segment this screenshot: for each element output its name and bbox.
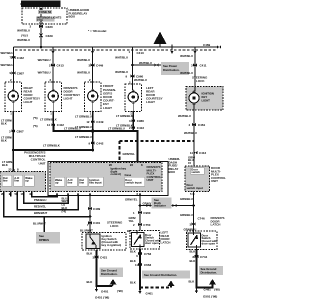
svg-text:GRN/BLU: GRN/BLU: [180, 197, 193, 201]
svg-text:LATCH: LATCH: [161, 240, 171, 244]
svg-text:WHT/BLU: WHT/BLU: [38, 71, 51, 75]
svg-text:(*4): (*4): [62, 210, 67, 214]
svg-text:LT GRN/BLU: LT GRN/BLU: [108, 126, 125, 130]
svg-text:WHT/BLU: WHT/BLU: [115, 56, 128, 60]
svg-text:LIGHT: LIGHT: [202, 99, 211, 103]
svg-text:line: line: [3, 179, 8, 183]
svg-text:switch input: switch input: [187, 186, 203, 190]
svg-text:LT GRN/BLK: LT GRN/BLK: [40, 118, 57, 122]
svg-text:C421: C421: [100, 256, 108, 260]
svg-text:LOCK: LOCK: [196, 79, 205, 83]
svg-text:up: up: [25, 179, 29, 183]
svg-text:BRN/WHT: BRN/WHT: [34, 211, 47, 215]
svg-text:G401: G401: [101, 290, 109, 294]
svg-text:C807: C807: [17, 130, 25, 134]
svg-text:BLK: BLK: [130, 281, 136, 285]
svg-text:GRN/YEL: GRN/YEL: [123, 152, 136, 156]
svg-text:UNIT: UNIT: [39, 161, 46, 165]
svg-text:G501 ('98): G501 ('98): [203, 295, 217, 299]
svg-text:BLK: BLK: [2, 163, 8, 167]
svg-text:switch input: switch input: [125, 181, 141, 185]
svg-text:GRN/YEL: GRN/YEL: [125, 198, 138, 202]
svg-text:LT GRN/BLU: LT GRN/BLU: [64, 126, 81, 130]
svg-text:PNK/BLU: PNK/BLU: [34, 198, 46, 202]
svg-text:BLK: BLK: [190, 259, 196, 263]
svg-text:BLK: BLK: [189, 280, 195, 284]
svg-text:C746: C746: [198, 217, 206, 221]
svg-text:WHT/BLU: WHT/BLU: [38, 58, 51, 62]
svg-text:HOT AT ALL TIMES: HOT AT ALL TIMES: [20, 2, 47, 6]
svg-text:key input: key input: [89, 181, 101, 185]
svg-text:WHT/BLU: WHT/BLU: [139, 61, 152, 65]
svg-text:GRN/BLU: GRN/BLU: [180, 213, 193, 217]
svg-text:BOX: BOX: [69, 15, 76, 19]
svg-text:RED/YEL: RED/YEL: [34, 204, 46, 208]
svg-text:WHT/BLU: WHT/BLU: [1, 63, 14, 67]
svg-text:BLK: BLK: [87, 280, 93, 284]
svg-text:UNIT: UNIT: [211, 179, 218, 183]
svg-text:LOCK: LOCK: [110, 224, 119, 228]
svg-text:WHT/BLU: WHT/BLU: [180, 71, 193, 75]
svg-text:C960: C960: [143, 211, 151, 215]
svg-text:(*6) 5: (*6) 5: [21, 34, 28, 38]
svg-text:C763: C763: [144, 252, 152, 256]
svg-text:DPMES: DPMES: [39, 238, 49, 242]
svg-text:BLK: BLK: [1, 139, 7, 143]
svg-text:Distribution.: Distribution.: [163, 68, 180, 72]
svg-text:(*6): (*6): [33, 116, 38, 120]
svg-text:C750: C750: [143, 223, 151, 227]
svg-text:C449: C449: [96, 120, 104, 124]
svg-text:WHT/BLU: WHT/BLU: [1, 51, 14, 55]
svg-text:UNIT: UNIT: [147, 178, 154, 182]
svg-text:BLK: BLK: [130, 250, 136, 254]
svg-text:C411: C411: [200, 64, 207, 68]
svg-text:LATCH: LATCH: [211, 223, 221, 227]
svg-text:WHT/BLU: WHT/BLU: [17, 29, 30, 33]
svg-text:WHT/BLU: WHT/BLU: [17, 38, 30, 42]
svg-text:14: 14: [190, 151, 194, 155]
svg-text:line: line: [14, 179, 19, 183]
svg-text:BLK: BLK: [190, 250, 196, 254]
svg-text:* = '98 model: * = '98 model: [88, 29, 106, 33]
svg-text:Indicator: Indicator: [154, 204, 167, 208]
svg-text:('98): ('98): [117, 289, 123, 293]
svg-text:Distribution.: Distribution.: [201, 271, 218, 275]
svg-text:(*6): (*6): [33, 124, 38, 128]
svg-text:G451 ('98): G451 ('98): [95, 296, 109, 300]
svg-text:BLK: BLK: [87, 251, 93, 255]
svg-text:WHT/BLU: WHT/BLU: [178, 114, 191, 118]
svg-text:12: 12: [86, 120, 90, 124]
svg-text:C442: C442: [96, 142, 104, 146]
svg-text:('98): ('98): [214, 288, 220, 292]
svg-text:C413: C413: [137, 126, 145, 130]
svg-text:G401: G401: [146, 292, 154, 296]
svg-text:C960: C960: [137, 119, 145, 123]
svg-text:15: 15: [188, 161, 192, 165]
svg-text:C469: C469: [203, 43, 211, 47]
svg-text:23: 23: [130, 163, 134, 167]
svg-text:WHT/BLU: WHT/BLU: [184, 131, 197, 135]
svg-text:switch: switch: [191, 170, 200, 174]
svg-text:11: 11: [135, 263, 138, 267]
svg-text:G491: G491: [204, 288, 212, 292]
svg-text:C442: C442: [17, 56, 25, 60]
svg-text:Distribution.: Distribution.: [101, 272, 118, 276]
svg-text:LT GRN/BLK: LT GRN/BLK: [43, 144, 60, 148]
svg-text:C329: C329: [46, 34, 54, 38]
svg-text:C409: C409: [93, 207, 101, 211]
svg-text:FUSE 52: FUSE 52: [39, 10, 52, 14]
svg-text:C413: C413: [57, 64, 65, 68]
svg-text:LT GRN/BLU: LT GRN/BLU: [75, 135, 92, 139]
svg-text:door open: door open: [145, 241, 159, 245]
svg-text:Case: Case: [125, 173, 132, 177]
svg-text:LT GRN/BLU: LT GRN/BLU: [75, 115, 92, 119]
svg-text:See Ground Distribution.: See Ground Distribution.: [144, 273, 177, 277]
svg-text:C744: C744: [200, 255, 208, 259]
svg-text:C401: C401: [93, 221, 101, 225]
svg-text:WHT/BLU: WHT/BLU: [180, 54, 193, 58]
svg-text:LIGHT: LIGHT: [146, 100, 155, 104]
svg-text:23: 23: [8, 168, 12, 172]
svg-text:door open: door open: [202, 242, 216, 246]
svg-text:C413: C413: [137, 51, 145, 55]
svg-text:C663: C663: [144, 263, 152, 267]
svg-text:BOX: BOX: [169, 170, 176, 174]
svg-text:C320: C320: [46, 25, 54, 29]
svg-text:key in ignition): key in ignition): [102, 243, 122, 247]
svg-text:C449: C449: [96, 64, 104, 68]
svg-text:WHT/BLU: WHT/BLU: [77, 71, 90, 75]
svg-text:line: line: [68, 181, 73, 185]
svg-text:control): control): [111, 172, 121, 176]
svg-text:LIGHT: LIGHT: [64, 97, 73, 101]
svg-text:WHT/BLU: WHT/BLU: [77, 58, 90, 62]
svg-text:WHT/BLU: WHT/BLU: [134, 78, 147, 82]
svg-text:BLK: BLK: [1, 122, 7, 126]
svg-text:C412: C412: [199, 151, 207, 155]
svg-text:LIGHT: LIGHT: [24, 100, 33, 104]
svg-text:C461: C461: [198, 123, 206, 127]
svg-text:BLU/WHT: BLU/WHT: [80, 229, 93, 233]
svg-text:line: line: [79, 181, 84, 185]
svg-text:LT GRN/BLK: LT GRN/BLK: [116, 114, 133, 118]
svg-text:C807: C807: [17, 72, 25, 76]
svg-text:14: 14: [47, 123, 51, 127]
svg-text:LIGHT: LIGHT: [103, 106, 112, 110]
svg-text:up: up: [55, 181, 59, 185]
svg-text:7.5A: 7.5A: [37, 18, 43, 22]
